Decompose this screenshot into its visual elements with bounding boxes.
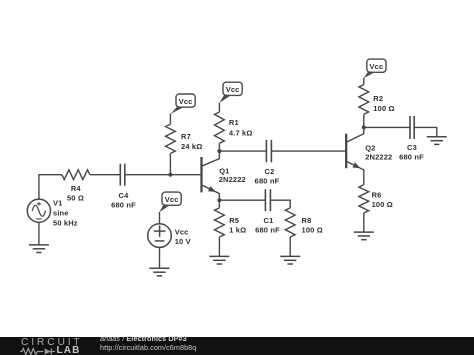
V2 labels <box>175 227 191 246</box>
wire R1 to collector node <box>218 143 220 151</box>
svg-text:C1: C1 <box>264 216 274 225</box>
svg-text:680 nF: 680 nF <box>255 226 280 235</box>
R4 labels <box>67 184 84 203</box>
R2 labels <box>373 94 394 113</box>
wire C4 to Q1 base <box>125 174 202 176</box>
net label Vcc (above V2 source) <box>160 192 182 212</box>
transistor Q2 (2N2222 NPN) <box>346 127 364 175</box>
Q2 labels <box>365 143 392 161</box>
wire Vcc to R7 <box>169 114 171 125</box>
svg-text:R5: R5 <box>229 216 239 225</box>
wire R4 to C4 <box>90 174 121 176</box>
svg-text:R4: R4 <box>71 184 82 193</box>
wire collector to C2 <box>219 150 266 152</box>
svg-text:R8: R8 <box>302 216 312 225</box>
svg-text:C4: C4 <box>119 191 130 200</box>
capacitor C2 <box>266 140 271 163</box>
resistor R8 <box>285 208 295 256</box>
C2 labels <box>255 167 280 186</box>
svg-text:2N2222: 2N2222 <box>365 152 392 161</box>
svg-text:2N2222: 2N2222 <box>219 175 246 184</box>
ground (V2) <box>150 268 170 276</box>
svg-text:50 Ω: 50 Ω <box>67 194 84 203</box>
wire V1 bottom to ground <box>38 222 40 245</box>
capacitor C4 <box>120 164 125 186</box>
wire R2 to collector node <box>363 114 365 127</box>
svg-text:Vcc: Vcc <box>175 227 189 236</box>
wire C1 to R8 <box>270 200 290 208</box>
svg-text:680 nF: 680 nF <box>399 152 424 161</box>
ground (R8) <box>280 256 300 264</box>
svg-text:1 kΩ: 1 kΩ <box>229 226 246 235</box>
svg-text:10 V: 10 V <box>175 237 191 246</box>
svg-text:R7: R7 <box>181 132 191 141</box>
wire collector to C3 <box>364 126 410 128</box>
ground (V1) <box>29 245 49 253</box>
svg-text:100 Ω: 100 Ω <box>372 200 393 209</box>
wire V2 to ground <box>159 247 161 268</box>
svg-text:R2: R2 <box>373 94 383 103</box>
wire C3 to ground <box>414 127 437 136</box>
wire Vcc to V2 <box>159 212 161 224</box>
svg-text:Q2: Q2 <box>365 143 375 152</box>
resistor R7 <box>166 124 176 153</box>
wire Vcc to R2 <box>363 78 365 85</box>
net label Vcc (above R1) <box>219 82 242 103</box>
R5 labels <box>229 216 246 235</box>
R8 labels <box>302 216 323 235</box>
svg-text:100 Ω: 100 Ω <box>373 104 394 113</box>
node Q2 collector <box>362 125 366 129</box>
svg-text:Vcc: Vcc <box>370 62 384 71</box>
svg-text:100 Ω: 100 Ω <box>302 226 323 235</box>
transistor Q1 (2N2222 NPN) <box>202 151 220 200</box>
resistor R6 <box>359 185 369 213</box>
svg-text:Vcc: Vcc <box>226 85 240 94</box>
C1 labels <box>255 216 280 235</box>
wire C2 to Q2 base <box>271 150 346 152</box>
node junction R7/base <box>168 173 172 177</box>
svg-text:R6: R6 <box>372 190 382 199</box>
node Q1 collector <box>217 149 221 153</box>
svg-text:680 nF: 680 nF <box>111 200 136 209</box>
svg-text:Vcc: Vcc <box>165 195 179 204</box>
svg-text:R1: R1 <box>229 118 239 127</box>
capacitor C3 <box>410 116 414 139</box>
voltage source V1 (sine, 50 kHz) <box>27 199 50 222</box>
C3 labels <box>399 143 424 162</box>
svg-text:Vcc: Vcc <box>179 97 193 106</box>
capacitor C1 <box>265 189 270 211</box>
svg-text:24 kΩ: 24 kΩ <box>181 142 202 151</box>
resistor R5 <box>215 200 225 256</box>
wire R7 to base wire <box>169 153 171 174</box>
C4 labels <box>111 191 136 209</box>
svg-text:4.7 kΩ: 4.7 kΩ <box>229 128 253 137</box>
net label Vcc (above R7) <box>171 94 196 114</box>
R1 labels <box>229 118 253 137</box>
wire R6 to ground <box>363 213 365 232</box>
svg-text:C2: C2 <box>265 167 275 176</box>
R6 labels <box>372 190 393 209</box>
wire V1 top to R4 <box>39 175 62 199</box>
ground (C3) <box>427 137 447 145</box>
svg-text:V1: V1 <box>53 198 62 207</box>
ground (R6) <box>354 232 374 240</box>
ground (R5) <box>209 256 229 264</box>
wire Q2 emitter to R6 <box>363 175 365 185</box>
svg-text:50 kHz: 50 kHz <box>53 219 78 228</box>
V1 labels <box>53 198 78 227</box>
net label Vcc (above R2) <box>364 59 386 78</box>
resistor R4 <box>62 170 90 180</box>
svg-text:C3: C3 <box>407 143 417 152</box>
svg-text:680 nF: 680 nF <box>255 177 280 186</box>
voltage source V2 (Vcc 10 V) <box>148 224 172 248</box>
node Q1 emitter <box>217 198 221 202</box>
R7 labels <box>181 132 202 151</box>
wire emitter to C1 <box>219 199 265 201</box>
wire Vcc to R1 <box>218 103 220 112</box>
Q1 labels <box>219 166 246 184</box>
resistor R2 <box>359 85 369 115</box>
resistor R1 <box>215 112 225 143</box>
svg-text:sine: sine <box>53 209 69 218</box>
